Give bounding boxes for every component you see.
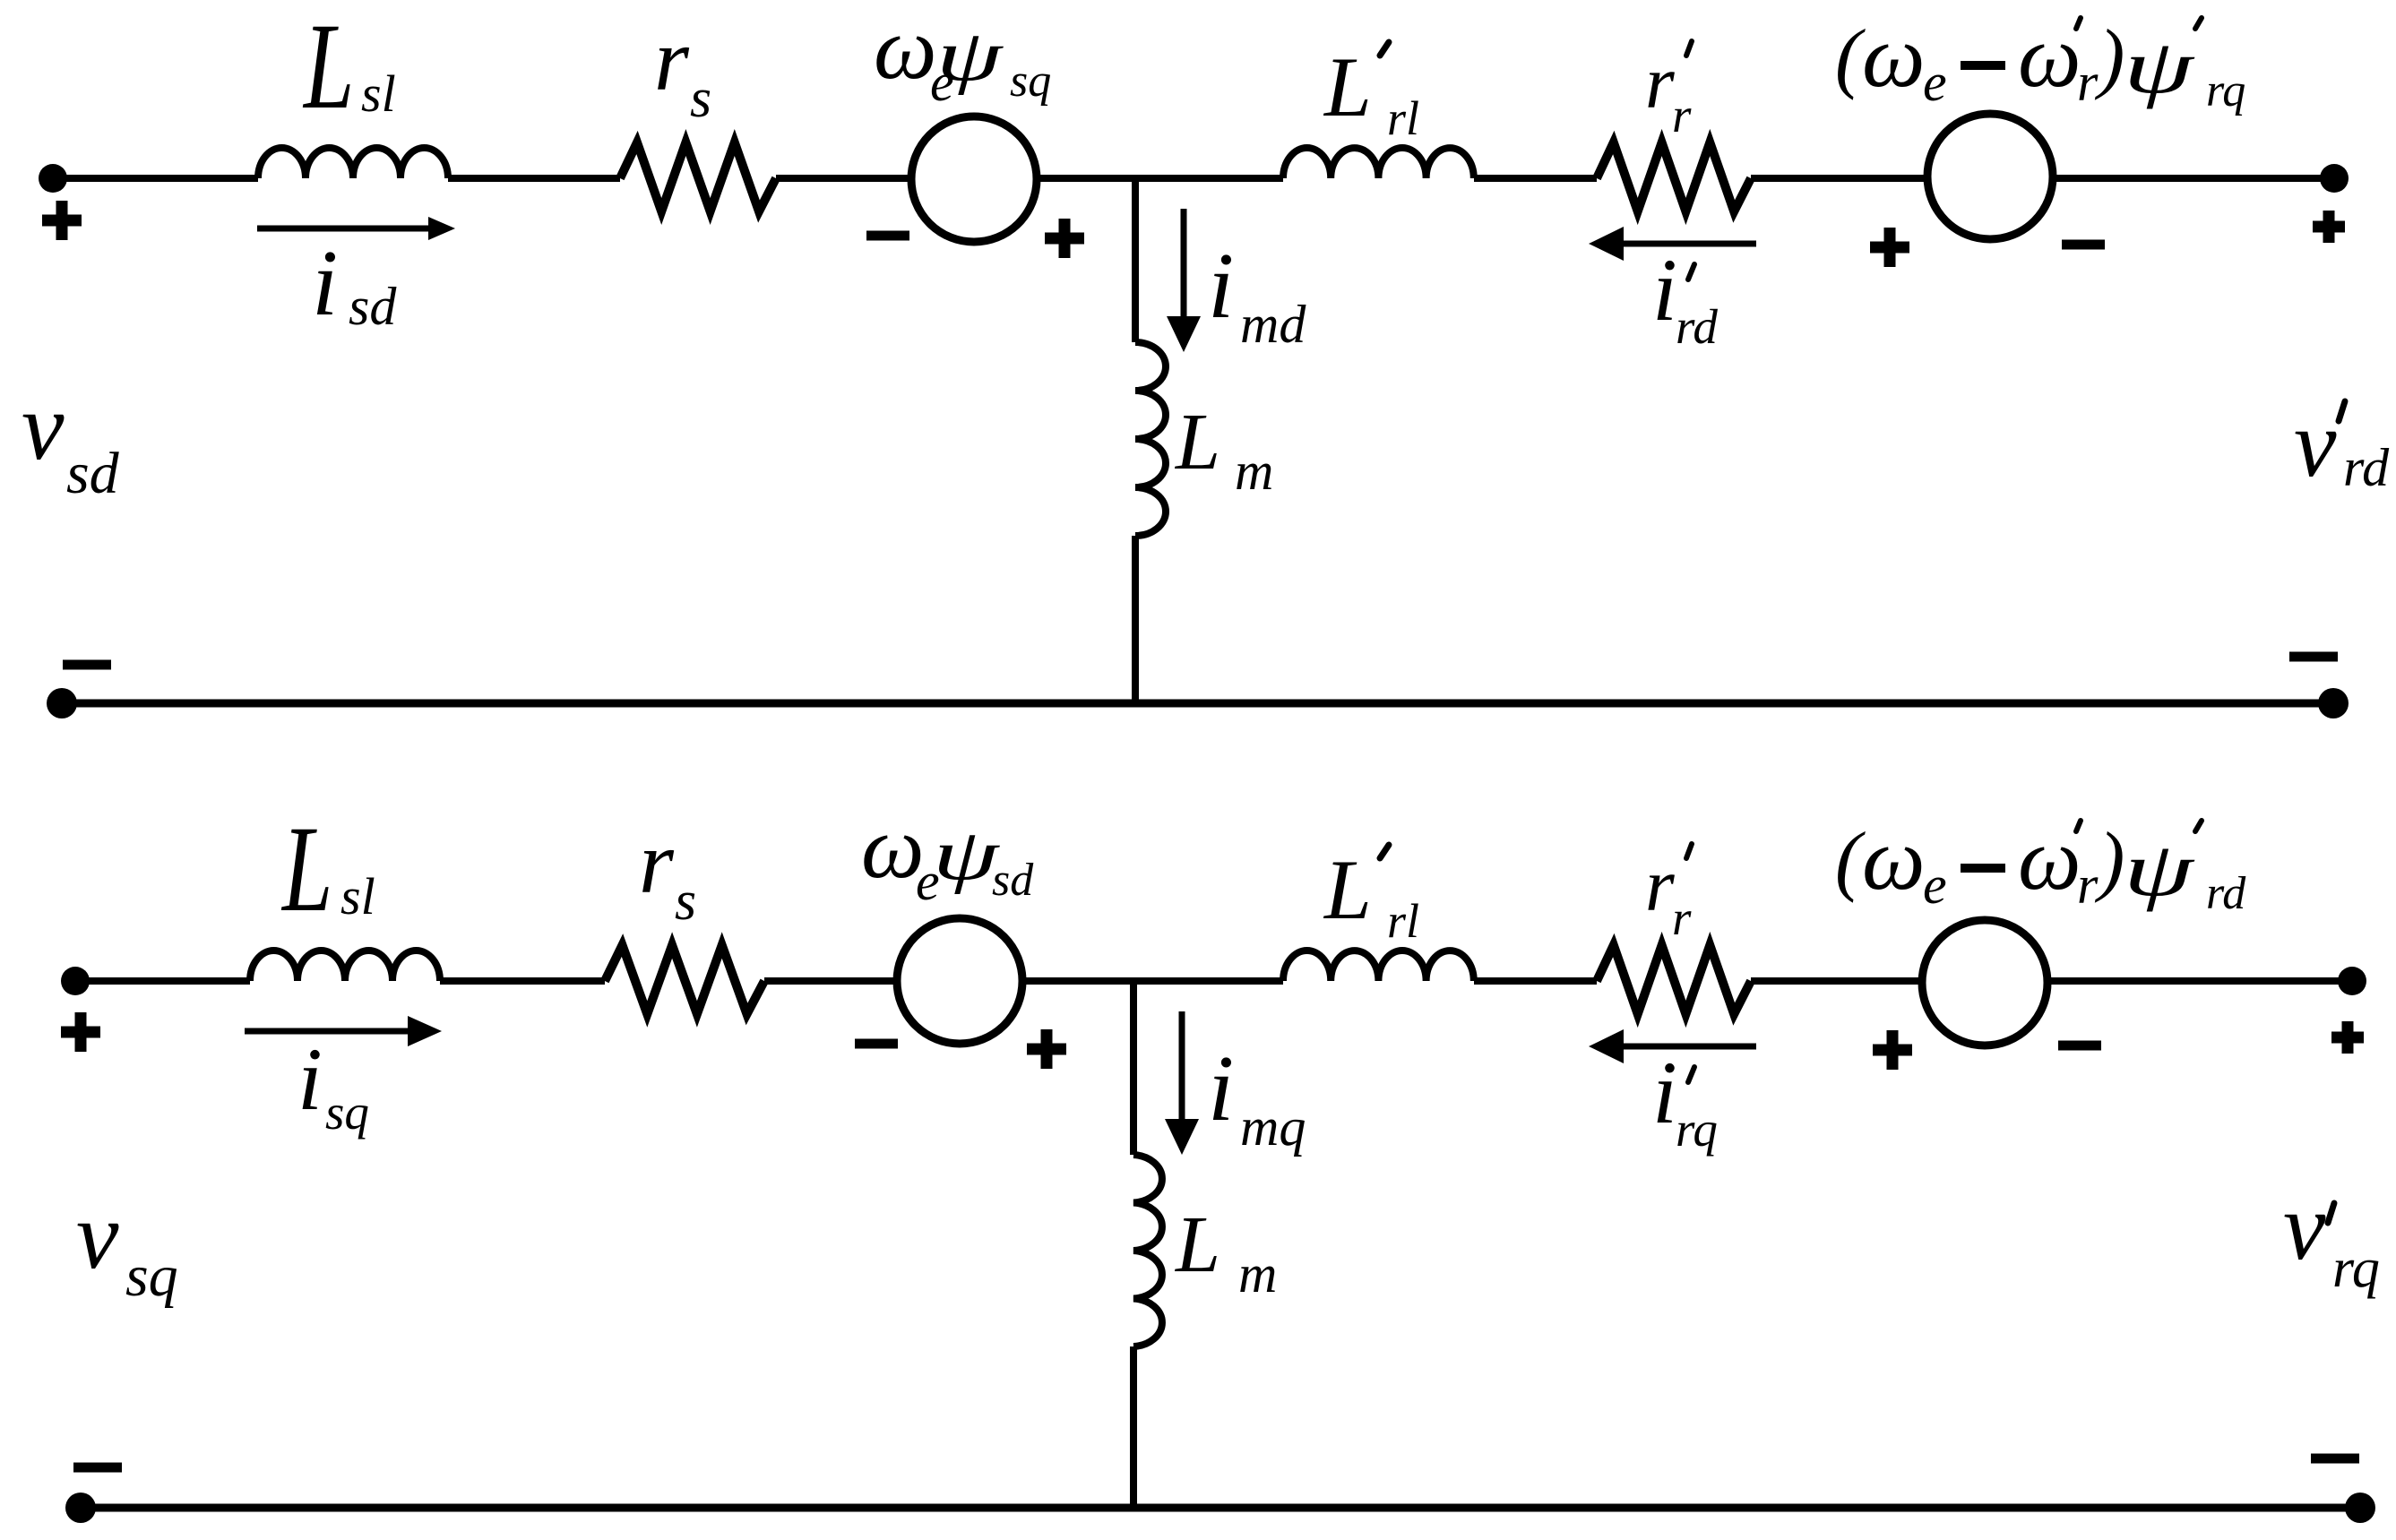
svg-text:ω: ω	[874, 0, 937, 98]
svg-text:i: i	[297, 1029, 323, 1129]
svg-text:rq: rq	[2206, 65, 2245, 116]
svg-text:rl: rl	[1387, 894, 1419, 948]
svg-text:sl: sl	[361, 65, 396, 123]
svg-text:ψ: ψ	[933, 815, 1001, 895]
svg-text:L: L	[302, 0, 354, 135]
svg-text:r: r	[1645, 41, 1675, 125]
svg-text:ψ: ψ	[2124, 24, 2195, 109]
svg-text:r: r	[1672, 890, 1692, 945]
svg-text:i: i	[312, 230, 338, 335]
svg-text:ω: ω	[1862, 809, 1926, 908]
svg-text:L: L	[1323, 842, 1372, 937]
svg-text:sq: sq	[125, 1243, 178, 1309]
svg-text:ω: ω	[2018, 809, 2081, 908]
svg-text:r: r	[2077, 856, 2099, 915]
svg-text:s: s	[690, 68, 711, 129]
svg-text:sq: sq	[325, 1085, 369, 1140]
svg-text:v: v	[22, 374, 65, 480]
svg-text:sl: sl	[340, 867, 375, 925]
svg-text:r: r	[654, 10, 690, 109]
svg-text:i: i	[1208, 1036, 1234, 1140]
svg-text:v: v	[2294, 391, 2337, 497]
svg-text:rd: rd	[2343, 438, 2390, 497]
svg-text:i: i	[1652, 240, 1677, 340]
svg-text:sd: sd	[992, 855, 1034, 906]
svg-text:(: (	[1835, 14, 1866, 101]
svg-text:r: r	[1672, 88, 1692, 142]
svg-text:rl: rl	[1387, 91, 1419, 145]
svg-text:L: L	[1323, 39, 1372, 134]
svg-text:rq: rq	[2332, 1238, 2380, 1299]
svg-text:e: e	[1923, 53, 1947, 112]
svg-text:r: r	[639, 813, 675, 912]
svg-text:ω: ω	[2018, 6, 2081, 106]
svg-text:i: i	[1208, 233, 1234, 338]
svg-text:): )	[2094, 817, 2125, 904]
svg-text:v: v	[2283, 1174, 2326, 1280]
svg-text:sq: sq	[1010, 56, 1051, 107]
svg-text:md: md	[1240, 295, 1306, 354]
svg-text:s: s	[675, 871, 696, 932]
svg-text:): )	[2094, 14, 2125, 101]
svg-text:ω: ω	[1862, 6, 1926, 106]
svg-text:v: v	[76, 1183, 119, 1289]
svg-text:rq: rq	[1676, 1102, 1718, 1157]
svg-text:e: e	[1923, 856, 1947, 915]
svg-text:r: r	[2077, 53, 2099, 112]
svg-text:(: (	[1835, 817, 1866, 904]
svg-text:m: m	[1238, 1244, 1277, 1303]
svg-text:L: L	[1174, 398, 1220, 486]
svg-text:rd: rd	[1676, 299, 1718, 354]
svg-text:mq: mq	[1240, 1097, 1306, 1157]
svg-text:rd: rd	[2206, 868, 2246, 919]
svg-text:sd: sd	[66, 441, 120, 506]
svg-text:L: L	[1174, 1200, 1220, 1289]
svg-text:sd: sd	[349, 277, 397, 336]
svg-text:m: m	[1235, 442, 1273, 501]
svg-text:r: r	[1645, 844, 1675, 927]
svg-text:ψ: ψ	[2124, 827, 2195, 912]
svg-text:ψ: ψ	[936, 16, 1004, 96]
svg-text:i: i	[1652, 1043, 1677, 1142]
svg-text:L: L	[280, 801, 332, 938]
